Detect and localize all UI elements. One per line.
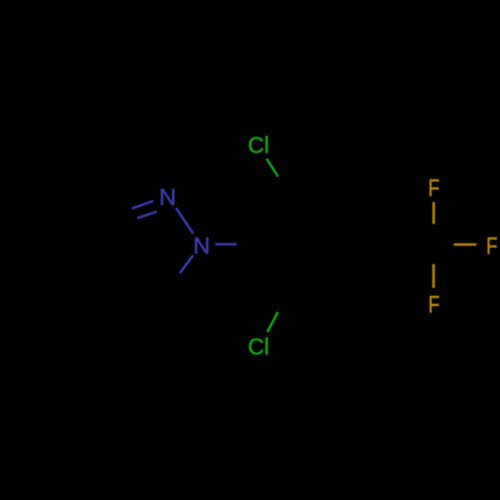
svg-text:N: N [159,184,176,210]
svg-text:N: N [193,233,210,259]
svg-text:F: F [428,175,439,202]
svg-text:Cl: Cl [248,334,269,360]
svg-text:F: F [428,291,439,318]
svg-text:Cl: Cl [248,132,269,158]
svg-text:F: F [486,233,497,260]
